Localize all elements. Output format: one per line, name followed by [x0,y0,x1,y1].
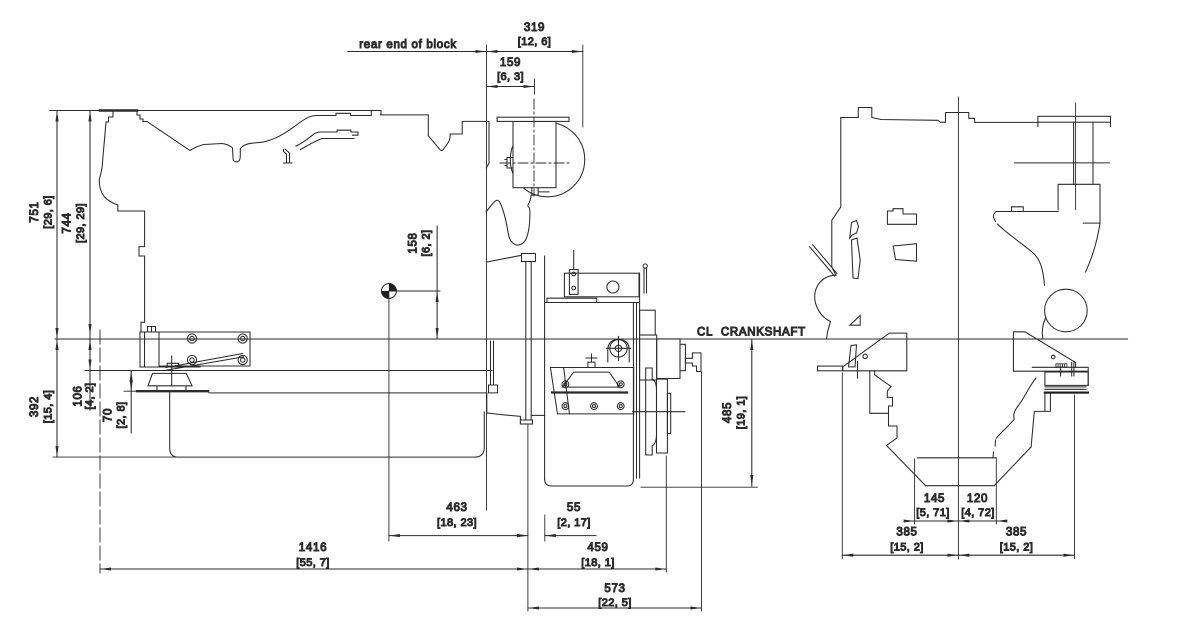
svg-text:106: 106 [73,385,85,406]
bracket detail lower [893,244,916,262]
engine top wavy outline with breather notch [147,122,267,162]
svg-text:744: 744 [62,212,74,233]
svg-text:[15, 2]: [15, 2] [890,542,923,554]
engine top right outline to turbo notch [381,115,490,168]
svg-text:CL CRANKSHAFT: CL CRANKSHAFT [697,327,806,339]
crank pulley bulge [815,275,836,339]
exhaust manifold ledge [993,207,1058,222]
extension line x=527.9 (rear face) [527,424,529,611]
CL CRANKSHAFT centerline [55,327,1128,340]
dimension 159 [6,3] [487,57,535,94]
svg-text:145: 145 [924,493,945,505]
right sump profile [1031,393,1050,447]
svg-text:[6, 3]: [6, 3] [497,71,524,83]
extension line right of 319 (x=582.8) [582,45,584,127]
sea water pump circle (rear view) [1045,289,1088,332]
svg-text:1416: 1416 [299,542,327,554]
dashed extension line front of engine (1416 datum) [99,330,101,573]
centerline of sea water pump (dash-dot) [500,99,570,196]
flywheel bottom line [531,414,544,416]
svg-text:573: 573 [604,583,625,595]
dimension 485 [19,1] [641,339,757,487]
svg-text:rear end of block: rear end of block [359,39,457,51]
dimension line 744/106 (x=90) [62,111,97,411]
svg-text:[2, 8]: [2, 8] [116,402,128,429]
isolator base plate [137,390,208,392]
svg-text:[4, 72]: [4, 72] [961,507,994,519]
dimension 385 right [15,2] [958,395,1074,559]
svg-text:158: 158 [408,232,420,253]
breather circle on cover [607,281,619,293]
vibration isolator cone [148,373,192,390]
svg-text:[15, 4]: [15, 4] [43,390,55,423]
pump small port left [505,158,513,169]
CG extension line down [388,291,390,541]
svg-text:70: 70 [103,408,115,422]
output coupling flange stack [633,368,685,455]
flywheel housing adapter plate [520,254,535,425]
svg-text:319: 319 [524,22,545,34]
svg-text:463: 463 [446,502,467,514]
svg-text:[22, 5]: [22, 5] [598,597,631,609]
heat exchanger flange and column [1015,103,1111,223]
svg-text:392: 392 [29,396,41,417]
oil pan outline [170,392,485,457]
pipe arc near pump bottom [1042,318,1045,339]
narrow casting slivers [850,220,859,238]
right view centerline [957,97,959,559]
svg-text:[15, 2]: [15, 2] [1000,542,1033,554]
dimension 319 [12,6] [518,22,551,48]
bracket detail upper [887,209,916,225]
top extension line (engine top / dim datum) [50,110,381,112]
right casting wiggle [996,378,1036,438]
gearbox mount plate [550,354,633,414]
pump outlet fitting [532,188,549,195]
oil sump bucket [917,447,1031,486]
sea water pump body [513,121,556,187]
right mount bracket (rear view) [1013,332,1089,394]
PTO block and shift knob [640,335,701,380]
svg-text:[5, 71]: [5, 71] [916,507,949,519]
svg-text:[2, 17]: [2, 17] [557,517,590,529]
svg-text:459: 459 [587,542,608,554]
oil pan rail line [209,393,526,423]
dipstick pin on gearbox [644,268,647,293]
svg-text:385: 385 [896,527,917,539]
svg-text:159: 159 [500,57,521,69]
svg-text:[19, 1]: [19, 1] [736,396,748,429]
hidden dashes near bucket [993,440,996,458]
svg-text:[4, 2]: [4, 2] [84,383,96,410]
dimension 145 [5,71] [904,459,970,524]
dimension 385 left [15,2] [842,373,958,559]
svg-text:[6, 2]: [6, 2] [421,230,433,257]
casting curve down to pump [998,224,1045,285]
gearbox top cover box [564,273,639,297]
dimension 573 [22,5] [528,372,702,611]
svg-text:385: 385 [1006,527,1027,539]
gearbox body top and shelf [545,298,640,302]
dimension 1416 [55,7] [100,542,528,571]
rear mount foot at block [489,341,498,393]
trailing pump housing with crosshair [606,336,630,362]
svg-text:[55, 7]: [55, 7] [296,557,329,569]
left profile of engine front [99,122,144,332]
gearbox front face [544,256,546,479]
PTO upper box [640,310,656,335]
small triangle boss [850,316,861,326]
front engine mount bracket [140,327,250,371]
svg-text:[18, 1]: [18, 1] [581,557,614,569]
gearbox body bottom [545,479,634,486]
svg-text:[12, 6]: [12, 6] [518,36,551,48]
svg-text:[18, 23]: [18, 23] [437,517,477,529]
dimension 120 [4,72] [947,459,1007,524]
bracket with holes on cover [569,251,578,295]
left mount bracket (rear view) [818,333,907,378]
valve cover hump (left view top) [106,111,147,123]
injection pipe band [296,130,358,149]
center of gravity symbol [381,284,396,299]
mount stud and nut [167,356,178,386]
dimension line 751/392 (x=57) [29,111,59,458]
svg-text:751: 751 [29,201,41,222]
air pipe S-curve up to top [267,111,381,142]
svg-text:55: 55 [567,502,581,514]
svg-text:120: 120 [967,493,988,505]
dimension 158 [6,2] CG height [389,226,440,339]
dipstick tube [810,245,837,276]
sea water pump volute circle [510,122,584,196]
left sump stepped profile [870,371,893,414]
svg-text:485: 485 [722,402,734,423]
water passage goose-neck outline [486,195,531,245]
right view top profile [841,108,1038,123]
right outline down [1086,223,1101,272]
dimension 463 [18,23] [389,502,528,537]
dimension 70 [2,8] (x=131) [103,371,138,434]
flywheel housing top edge [487,255,522,262]
oil pan bottom extension to left [53,456,176,458]
mounting surface line [85,370,492,372]
extension line: rear end of block (x=486.5) [486,45,488,510]
small bracket flag below pipe [284,149,293,163]
sea water pump flange [497,117,569,121]
svg-text:[29, 29]: [29, 29] [75,203,87,243]
right view left profile [832,118,841,276]
label: rear end of block [348,39,583,53]
dimension 459 [18,1] [528,456,666,572]
gearbox rear cover plates [633,273,639,478]
svg-text:[29, 6]: [29, 6] [43,195,55,228]
dimension 55 [2,17] [517,502,596,541]
